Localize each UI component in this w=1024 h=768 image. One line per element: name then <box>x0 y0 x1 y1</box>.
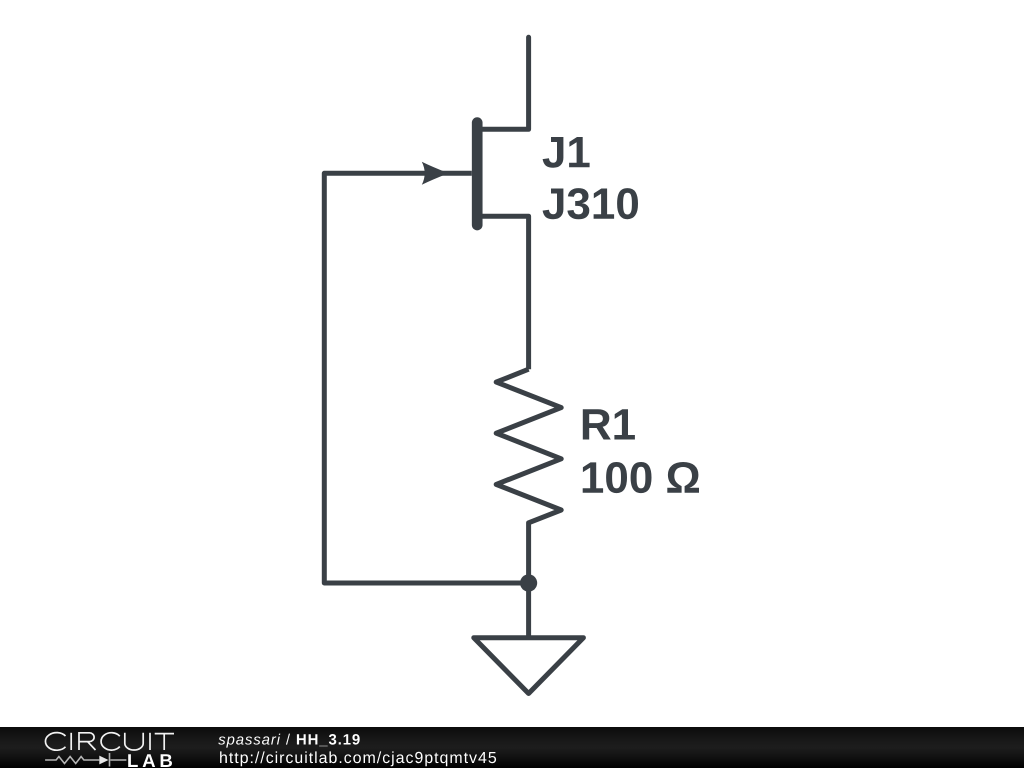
label J310 (part number) <box>543 188 638 219</box>
footer title: spassari / HH_3.19 <box>218 734 360 748</box>
logo diode triangle <box>99 756 108 765</box>
wire drain lead (top terminal down to transistor drain) <box>479 37 529 129</box>
logo CIRCUIT wordmark <box>45 733 174 751</box>
logo resistor-diode icon <box>45 753 126 767</box>
label J1 (designator) <box>543 137 590 168</box>
footer bar background <box>0 727 1024 768</box>
transistor J1 gate arrowhead <box>422 162 449 185</box>
resistor R1 zigzag body <box>496 369 561 583</box>
ground symbol triangle <box>474 638 584 694</box>
footer url: http://circuitlab.com/cjac9ptqmtv45 <box>220 751 496 766</box>
wire node to ground <box>526 583 531 638</box>
wire gate feedback loop (gate left, down, to bottom node) <box>324 173 522 583</box>
transistor J1 channel bar <box>472 123 483 225</box>
label 100 ohm (value) <box>583 462 699 493</box>
logo LAB wordmark <box>128 754 172 767</box>
node junction dot <box>520 574 537 591</box>
label R1 (designator) <box>583 409 635 439</box>
wire source lead (transistor source down to resistor) <box>479 216 529 369</box>
